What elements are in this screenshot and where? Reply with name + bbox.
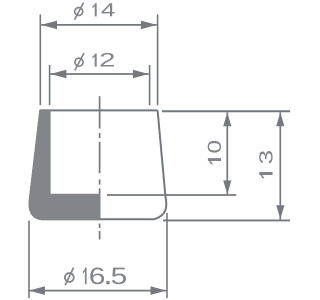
section fill (left wall + floor, L-shape) xyxy=(30,110,100,219)
dim phi14 left arrowhead xyxy=(41,21,57,30)
dim phi16.5 right arrowhead xyxy=(151,286,167,295)
dim 10 top arrowhead xyxy=(223,112,231,126)
dim 13 top arrowhead xyxy=(276,112,284,126)
dim text glyph "2" (p12_2) xyxy=(101,53,114,67)
dim text glyph "4" (p14_4) xyxy=(102,3,115,16)
centerline dot 2 xyxy=(99,180,101,185)
floor level extension line (10 dim bottom reference) xyxy=(107,194,236,196)
dim phi16.5 dimension line xyxy=(29,290,166,292)
dim phi16.5 left arrowhead xyxy=(29,286,45,295)
dim phi14 right extension line xyxy=(157,15,159,106)
cap outer outline (right edge, bottom, left slant edge) xyxy=(30,110,167,219)
dim text glyph "1" (p10_1) xyxy=(208,158,221,164)
dim text glyph "." (p165_dot) xyxy=(106,281,109,284)
dim phi12 right extension line xyxy=(149,65,151,105)
dim text glyph "1" (p12_1) xyxy=(92,54,96,67)
dim 10 bottom arrowhead xyxy=(223,180,231,194)
dim phi12 right arrowhead xyxy=(133,70,149,79)
dim phi14 phi symbol (circle + slash) xyxy=(75,8,83,16)
dim phi14 dimension line xyxy=(41,24,157,26)
dim text glyph "5" (p165_5) xyxy=(112,268,126,285)
dim text glyph "0" (p10_0) xyxy=(208,141,221,153)
dim phi16.5 right extension line xyxy=(166,213,168,298)
centerline dash segment 3 (runs to section floor) xyxy=(99,188,101,194)
top extension line to right dims xyxy=(162,110,290,112)
bottom reference line (cap bottom extension to 13 dim) xyxy=(163,219,290,221)
dim text glyph "6" (p165_6) xyxy=(90,268,104,285)
dim phi12 left extension line xyxy=(49,65,51,105)
dim text glyph "3" (p13_3) xyxy=(259,151,272,163)
dim text glyph "1" (p165_1) xyxy=(83,268,87,285)
dim phi16.5 phi symbol (circle + slash) xyxy=(65,273,74,282)
dim phi14 left extension line xyxy=(39,15,41,106)
dim phi14 right arrowhead xyxy=(141,21,157,30)
dim phi16.5 left extension line xyxy=(28,221,30,299)
dim text glyph "1" (p14_1) xyxy=(92,3,96,16)
dim 10 dimension line xyxy=(226,112,228,194)
centerline dot 1 xyxy=(99,133,101,138)
dim phi12 dimension line xyxy=(51,73,149,75)
centerline dash segment 2 xyxy=(99,142,101,174)
dim phi12 left arrowhead xyxy=(51,70,67,79)
dim 13 dimension line xyxy=(279,112,281,219)
centerline dash segment 4 xyxy=(99,231,101,240)
dim 13 bottom arrowhead xyxy=(276,205,284,219)
dim text glyph "1" (p13_1) xyxy=(259,172,272,178)
dim phi12 phi symbol (circle + slash) xyxy=(75,58,83,66)
centerline dot 3 (below cap bottom) xyxy=(99,224,101,229)
cap top edge line xyxy=(40,109,157,111)
centerline dash segment 1 xyxy=(99,96,101,128)
